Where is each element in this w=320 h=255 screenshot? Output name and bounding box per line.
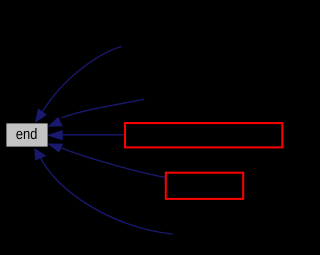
wire E1 (curve from top caller node to end): [43, 47, 122, 112]
node box B2 (red, truncated caller): [166, 173, 243, 199]
wire E2 (curve from second caller node to end): [62, 99, 145, 118]
arrowhead A4: [47, 144, 63, 153]
node end (gray filled box): [6, 123, 47, 146]
wire E6 (long bottom curve from lowest caller node to end): [41, 158, 173, 234]
node end label: glyph d: [31, 128, 37, 139]
node end label: glyph n: [24, 131, 29, 139]
arrowhead A2: [47, 117, 62, 127]
node box B1 (red, truncated caller): [125, 123, 282, 147]
arrowhead A3: [47, 130, 63, 140]
arrowhead A1: [35, 108, 47, 123]
wire E3 (horizontal from red box B1 to end): [62, 134, 125, 136]
wire E4 (curve from red box B2 to end): [62, 148, 167, 178]
node end label: glyph e: [16, 131, 22, 139]
arrowhead A6: [34, 148, 46, 161]
